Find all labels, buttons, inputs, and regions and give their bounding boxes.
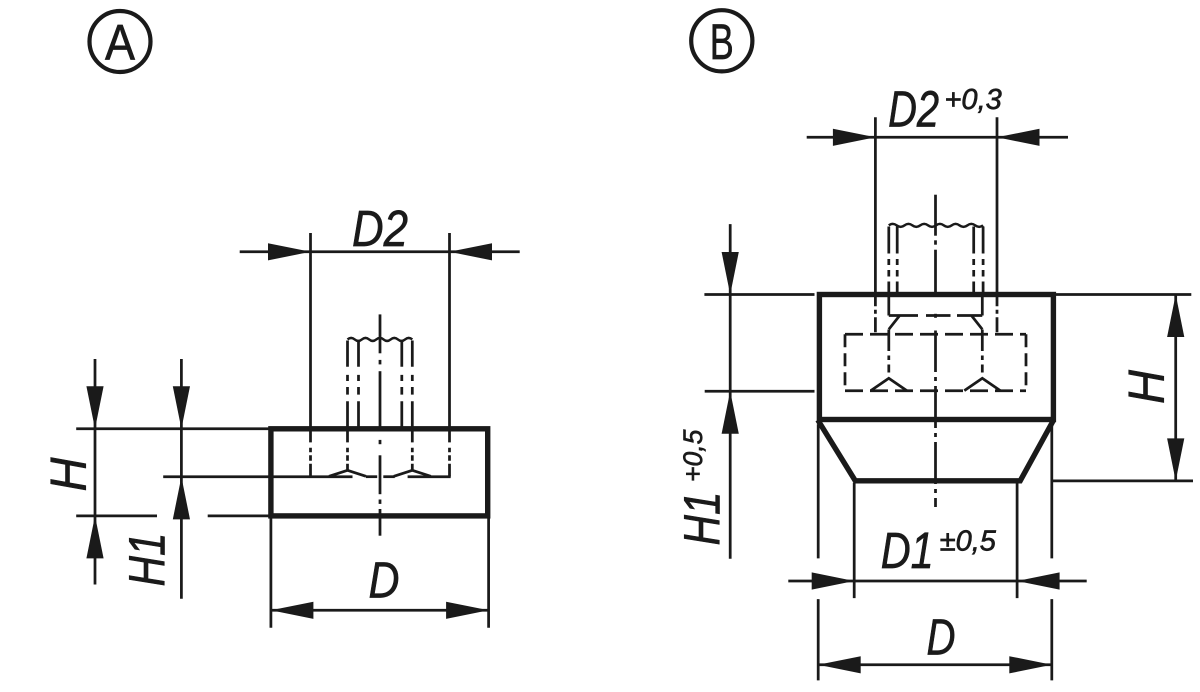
svg-text:A: A: [105, 15, 136, 71]
svg-text:D1: D1: [881, 522, 934, 579]
svg-text:+0,3: +0,3: [945, 84, 1002, 116]
svg-text:H: H: [1118, 370, 1175, 404]
svg-text:H: H: [40, 457, 97, 491]
svg-text:+0,5: +0,5: [678, 429, 708, 482]
svg-text:D2: D2: [352, 200, 408, 257]
svg-text:±0,5: ±0,5: [940, 525, 997, 557]
svg-text:D: D: [369, 552, 400, 609]
svg-text:D2: D2: [888, 80, 939, 137]
svg-text:H1: H1: [119, 533, 176, 587]
svg-text:D: D: [927, 609, 956, 666]
svg-text:B: B: [710, 14, 734, 70]
svg-text:H1: H1: [674, 492, 731, 546]
